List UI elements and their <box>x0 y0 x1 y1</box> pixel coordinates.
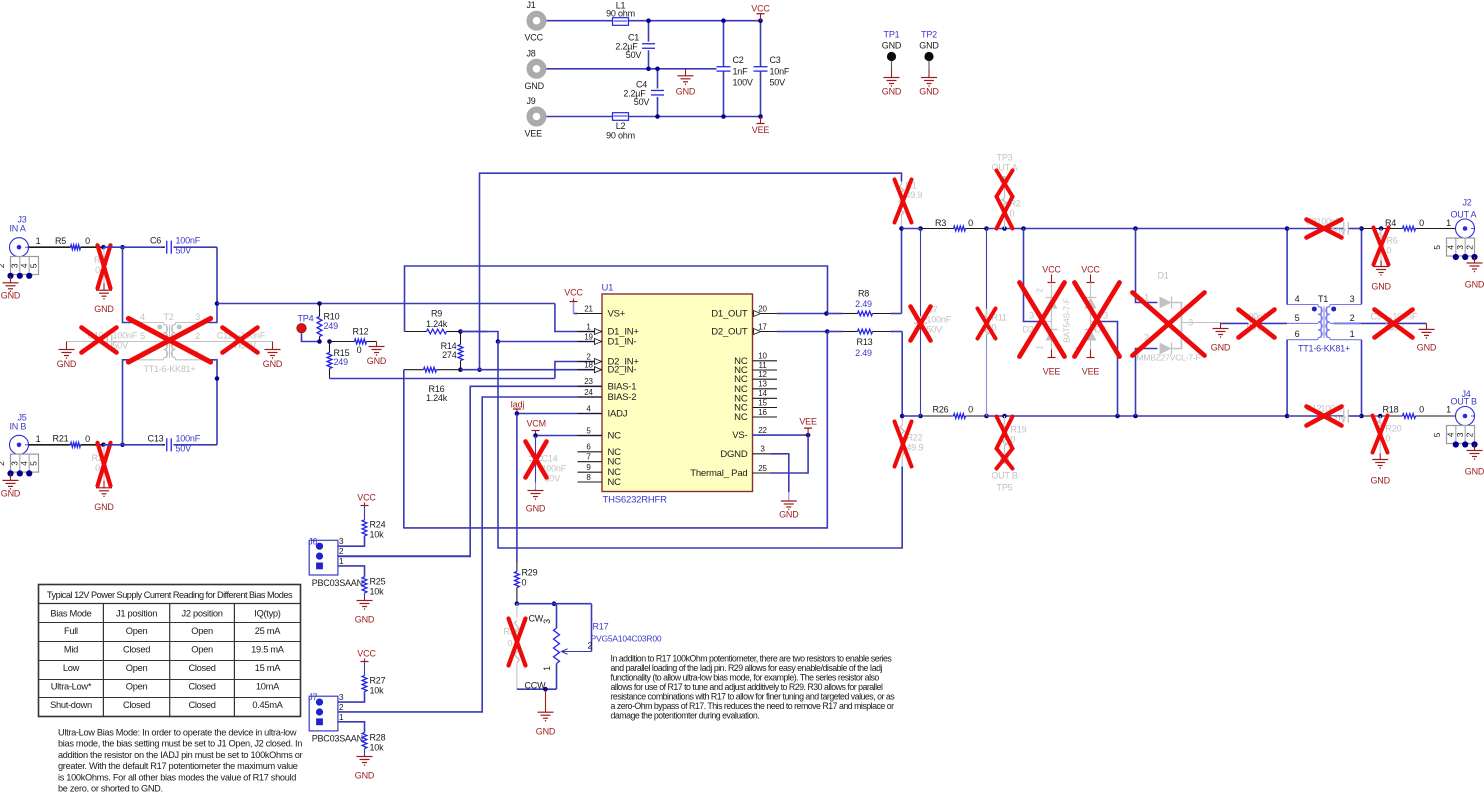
svg-text:50V: 50V <box>927 325 943 335</box>
svg-text:GND: GND <box>536 727 556 737</box>
svg-text:3: 3 <box>1188 318 1193 328</box>
svg-text:90 ohm: 90 ohm <box>606 131 635 141</box>
svg-text:IADJ: IADJ <box>608 409 628 420</box>
svg-text:4: 4 <box>140 312 145 322</box>
svg-text:GND: GND <box>57 359 77 369</box>
svg-text:2: 2 <box>0 263 6 268</box>
svg-text:15 mA: 15 mA <box>255 663 281 673</box>
svg-text:J2 position: J2 position <box>181 609 222 619</box>
svg-text:NC: NC <box>608 457 622 468</box>
svg-text:T1: T1 <box>1318 294 1328 304</box>
svg-text:GND: GND <box>1211 343 1231 353</box>
svg-text:0: 0 <box>1419 218 1424 228</box>
svg-text:R3: R3 <box>935 218 946 228</box>
svg-text:L2: L2 <box>616 121 626 131</box>
svg-text:be zero, or shorted to GND.: be zero, or shorted to GND. <box>58 784 163 793</box>
svg-text:BIAS-2: BIAS-2 <box>608 392 637 403</box>
svg-text:VS-: VS- <box>732 430 747 441</box>
svg-text:VEE: VEE <box>525 129 543 139</box>
svg-text:1: 1 <box>36 236 41 246</box>
svg-text:3: 3 <box>339 536 344 546</box>
svg-text:3: 3 <box>1029 311 1034 321</box>
svg-text:0: 0 <box>95 463 100 473</box>
svg-text:TT1-6-KK81+: TT1-6-KK81+ <box>1298 344 1350 354</box>
svg-text:249: 249 <box>334 357 349 367</box>
svg-text:10k: 10k <box>370 530 385 540</box>
svg-text:D1_IN-: D1_IN- <box>608 337 637 348</box>
svg-text:BIAS-1: BIAS-1 <box>608 381 637 392</box>
svg-text:GND: GND <box>355 771 375 781</box>
svg-text:50V: 50V <box>176 443 192 453</box>
svg-text:Bias Mode: Bias Mode <box>50 609 91 619</box>
svg-text:NC: NC <box>608 431 622 442</box>
svg-text:100V: 100V <box>733 77 753 87</box>
svg-text:0: 0 <box>85 434 90 444</box>
svg-text:100nF: 100nF <box>176 236 201 246</box>
svg-text:23: 23 <box>584 377 593 386</box>
svg-text:J1 position: J1 position <box>116 609 157 619</box>
svg-text:25 mA: 25 mA <box>255 626 281 636</box>
svg-text:R27: R27 <box>370 676 386 686</box>
svg-text:J1: J1 <box>527 0 536 10</box>
svg-text:10k: 10k <box>370 743 385 753</box>
svg-text:J8: J8 <box>527 48 536 58</box>
svg-text:17: 17 <box>758 322 767 331</box>
svg-text:3: 3 <box>1350 294 1355 304</box>
svg-text:D1: D1 <box>1158 271 1169 281</box>
svg-text:14: 14 <box>758 389 767 398</box>
svg-text:GND: GND <box>1370 476 1390 486</box>
svg-text:0: 0 <box>1419 405 1424 415</box>
svg-text:249: 249 <box>324 321 339 331</box>
svg-text:GND: GND <box>94 502 114 512</box>
svg-text:19.5 mA: 19.5 mA <box>251 645 285 655</box>
svg-text:VCC: VCC <box>357 493 376 503</box>
svg-text:and parallel loading of the Ia: and parallel loading of the Iadj pin. R2… <box>611 663 883 673</box>
svg-text:2: 2 <box>1464 432 1474 437</box>
svg-text:10k: 10k <box>370 686 385 696</box>
svg-text:D2_IN-: D2_IN- <box>608 365 637 376</box>
svg-text:R9: R9 <box>431 309 442 319</box>
svg-text:VCC: VCC <box>525 33 544 43</box>
svg-text:R4: R4 <box>1385 218 1396 228</box>
svg-text:VCM: VCM <box>527 419 546 429</box>
svg-text:damage the potentiomter during: damage the potentiomter during evaluatio… <box>611 711 760 721</box>
svg-text:allows for use of R17 to tune: allows for use of R17 to tune and adjust… <box>611 682 883 692</box>
svg-text:PVG5A104C03R00: PVG5A104C03R00 <box>591 634 662 644</box>
svg-text:Ultra-Low*: Ultra-Low* <box>51 682 92 692</box>
svg-text:is 100kOhms. For all other bia: is 100kOhms. For all other bias modes th… <box>58 772 296 782</box>
svg-text:R6: R6 <box>1387 236 1398 246</box>
svg-text:5: 5 <box>28 263 38 268</box>
svg-text:NC: NC <box>734 412 748 423</box>
svg-text:GND: GND <box>94 304 114 314</box>
svg-text:R24: R24 <box>370 520 386 530</box>
svg-text:GND: GND <box>263 359 283 369</box>
svg-text:100nF: 100nF <box>927 315 952 325</box>
svg-text:50V: 50V <box>176 246 192 256</box>
svg-text:1: 1 <box>1350 329 1355 339</box>
svg-text:5: 5 <box>1295 313 1300 323</box>
svg-text:R8: R8 <box>858 289 869 299</box>
svg-text:1: 1 <box>1446 218 1451 228</box>
svg-text:R12: R12 <box>353 327 369 337</box>
svg-text:GND: GND <box>1 488 21 498</box>
svg-text:R25: R25 <box>370 577 386 587</box>
svg-text:Thermal_ Pad: Thermal_ Pad <box>690 468 747 479</box>
svg-text:Low: Low <box>63 663 80 673</box>
svg-text:3: 3 <box>339 692 344 702</box>
svg-text:BAT54S-7-F: BAT54S-7-F <box>1062 298 1072 343</box>
svg-text:Open: Open <box>126 682 148 692</box>
svg-text:VCC: VCC <box>1081 265 1100 275</box>
svg-text:VEE: VEE <box>1043 367 1061 377</box>
svg-text:GND: GND <box>1465 467 1484 477</box>
svg-text:DGND: DGND <box>720 449 748 460</box>
svg-text:R28: R28 <box>370 733 386 743</box>
svg-text:GND: GND <box>355 615 375 625</box>
svg-text:1.24k: 1.24k <box>426 393 448 403</box>
svg-text:VEE: VEE <box>1082 367 1100 377</box>
svg-text:10mA: 10mA <box>256 682 280 692</box>
svg-text:R5: R5 <box>55 236 66 246</box>
svg-text:10k: 10k <box>370 587 385 597</box>
svg-text:10nF: 10nF <box>770 66 790 76</box>
svg-text:a zero-Ohm bypass of R17. Thi: a zero-Ohm bypass of R17. This reduces t… <box>611 701 895 711</box>
svg-text:GND: GND <box>882 41 902 51</box>
svg-text:GND: GND <box>1465 280 1484 290</box>
svg-text:GND: GND <box>882 87 902 97</box>
svg-text:Iadj: Iadj <box>511 400 525 410</box>
svg-text:5: 5 <box>1432 245 1442 250</box>
svg-text:R17: R17 <box>593 622 609 632</box>
svg-text:22: 22 <box>758 426 767 435</box>
svg-text:0: 0 <box>1010 209 1015 219</box>
svg-text:NC: NC <box>608 477 622 488</box>
svg-text:3: 3 <box>195 312 200 322</box>
svg-text:2: 2 <box>1464 245 1474 250</box>
svg-text:100nF: 100nF <box>113 331 138 341</box>
svg-text:J9: J9 <box>527 96 536 106</box>
svg-text:J2: J2 <box>1463 198 1472 208</box>
svg-text:TP5: TP5 <box>997 483 1013 493</box>
svg-text:J7: J7 <box>308 692 317 702</box>
svg-text:Closed: Closed <box>123 645 150 655</box>
svg-text:0.45mA: 0.45mA <box>252 700 283 710</box>
svg-text:49.9: 49.9 <box>907 443 924 453</box>
svg-text:1: 1 <box>542 666 552 671</box>
svg-text:2: 2 <box>195 331 200 341</box>
svg-text:19: 19 <box>584 332 593 341</box>
svg-text:GND: GND <box>919 41 939 51</box>
svg-text:50V: 50V <box>770 77 786 87</box>
svg-text:GND: GND <box>1 291 21 301</box>
svg-text:18: 18 <box>584 361 593 370</box>
svg-text:1: 1 <box>339 556 344 566</box>
svg-text:0: 0 <box>1386 434 1391 444</box>
svg-text:11: 11 <box>759 361 768 370</box>
svg-text:5: 5 <box>28 461 38 466</box>
svg-text:D2_OUT: D2_OUT <box>711 327 748 338</box>
svg-text:0: 0 <box>968 218 973 228</box>
svg-text:VS+: VS+ <box>608 309 626 320</box>
svg-text:VCC: VCC <box>751 4 770 14</box>
svg-text:VCC: VCC <box>357 649 376 659</box>
svg-text:R21: R21 <box>53 434 69 444</box>
svg-text:25: 25 <box>758 464 767 473</box>
svg-text:GND: GND <box>919 87 939 97</box>
svg-text:6: 6 <box>1295 329 1300 339</box>
svg-text:PBC03SAAN: PBC03SAAN <box>312 578 363 588</box>
svg-text:OUT B: OUT B <box>1451 397 1478 407</box>
svg-text:2: 2 <box>1350 313 1355 323</box>
svg-text:Typical 12V Power Supply Curre: Typical 12V Power Supply Current Reading… <box>47 590 293 600</box>
svg-text:PBC03SAAN: PBC03SAAN <box>312 734 363 744</box>
svg-text:TP2: TP2 <box>921 30 937 40</box>
svg-text:GND: GND <box>367 356 387 366</box>
svg-text:Open: Open <box>191 626 213 636</box>
svg-text:GND: GND <box>1371 282 1391 292</box>
svg-text:12: 12 <box>758 370 767 379</box>
svg-text:functionality (to allow ultra-: functionality (to allow ultra-low bias m… <box>611 673 880 683</box>
svg-text:VCC: VCC <box>1042 265 1061 275</box>
svg-text:VEE: VEE <box>799 417 817 427</box>
svg-text:IQ(typ): IQ(typ) <box>254 609 281 619</box>
svg-text:Open: Open <box>191 645 213 655</box>
svg-text:0: 0 <box>85 236 90 246</box>
svg-text:50V: 50V <box>626 50 642 60</box>
svg-text:GND: GND <box>1417 343 1437 353</box>
svg-text:2: 2 <box>339 702 344 712</box>
svg-text:21: 21 <box>584 304 593 313</box>
svg-text:addition the resistor on the I: addition the resistor on the IADJ pin mu… <box>58 750 303 760</box>
svg-text:10: 10 <box>758 352 767 361</box>
svg-text:resistance combinations with R: resistance combinations with R17 to allo… <box>611 692 896 702</box>
svg-text:OUT A: OUT A <box>1451 210 1477 220</box>
svg-text:TP1: TP1 <box>884 30 900 40</box>
svg-text:R20: R20 <box>1386 424 1402 434</box>
svg-text:50V: 50V <box>634 97 650 107</box>
svg-text:16: 16 <box>758 408 767 417</box>
svg-text:0: 0 <box>968 405 973 415</box>
svg-text:Ultra-Low Bias Mode: In order: Ultra-Low Bias Mode: In order to operate… <box>58 728 297 738</box>
svg-text:VCC: VCC <box>564 288 583 298</box>
svg-text:C2: C2 <box>733 55 744 65</box>
svg-text:C3: C3 <box>770 55 781 65</box>
svg-text:0: 0 <box>508 639 513 649</box>
svg-text:IN A: IN A <box>10 224 26 234</box>
svg-text:4: 4 <box>1295 294 1300 304</box>
svg-text:100nF: 100nF <box>176 433 201 443</box>
svg-text:1nF: 1nF <box>733 66 749 76</box>
svg-text:Closed: Closed <box>188 682 215 692</box>
svg-text:2.49: 2.49 <box>855 299 872 309</box>
svg-text:TT1-6-KK81+: TT1-6-KK81+ <box>143 364 195 374</box>
svg-text:24: 24 <box>584 388 593 397</box>
svg-text:90 ohm: 90 ohm <box>606 9 635 19</box>
svg-text:Shut-down: Shut-down <box>50 700 92 710</box>
svg-text:C14: C14 <box>542 454 558 464</box>
svg-text:C13: C13 <box>148 433 164 443</box>
svg-text:5: 5 <box>1432 432 1442 437</box>
svg-text:IN B: IN B <box>10 421 27 431</box>
svg-text:D1_OUT: D1_OUT <box>711 309 748 320</box>
svg-text:0: 0 <box>1387 246 1392 256</box>
svg-text:20: 20 <box>758 304 767 313</box>
svg-text:3: 3 <box>542 619 552 624</box>
svg-text:TP4: TP4 <box>298 314 314 324</box>
svg-text:VEE: VEE <box>752 125 770 135</box>
svg-text:R29: R29 <box>522 568 538 578</box>
svg-text:R26: R26 <box>933 405 949 415</box>
svg-text:Mid: Mid <box>64 645 78 655</box>
svg-text:R19: R19 <box>1011 425 1027 435</box>
svg-text:T2: T2 <box>163 312 173 322</box>
svg-text:R18: R18 <box>1383 405 1399 415</box>
svg-text:2: 2 <box>339 546 344 556</box>
svg-text:Closed: Closed <box>188 700 215 710</box>
svg-text:Open: Open <box>126 663 148 673</box>
svg-text:bias mode, the bias setting mu: bias mode, the bias setting must be set … <box>58 739 302 749</box>
svg-text:GND: GND <box>526 504 546 514</box>
svg-text:Closed: Closed <box>188 663 215 673</box>
svg-text:Closed: Closed <box>123 700 150 710</box>
svg-text:J6: J6 <box>308 536 317 546</box>
svg-text:OUT B: OUT B <box>991 471 1018 481</box>
svg-text:0: 0 <box>357 345 362 355</box>
svg-text:0: 0 <box>95 265 100 275</box>
svg-text:greater. With the default R17: greater. With the default R17 potentiome… <box>58 761 298 771</box>
svg-text:1: 1 <box>36 434 41 444</box>
svg-text:In addition to R17 100kOhm pot: In addition to R17 100kOhm potentiometer… <box>611 654 893 664</box>
svg-text:Open: Open <box>126 626 148 636</box>
svg-text:GND: GND <box>779 510 799 520</box>
svg-text:0: 0 <box>522 578 527 588</box>
svg-text:5: 5 <box>140 331 145 341</box>
svg-text:1.24k: 1.24k <box>426 319 448 329</box>
svg-text:GND: GND <box>525 81 545 91</box>
svg-text:THS6232RHFR: THS6232RHFR <box>603 495 668 506</box>
svg-text:2.49: 2.49 <box>855 348 872 358</box>
svg-text:MMBZ27VCL-7-F: MMBZ27VCL-7-F <box>1137 353 1201 363</box>
svg-text:U1: U1 <box>602 283 614 294</box>
svg-text:TP3: TP3 <box>997 153 1013 163</box>
svg-text:Full: Full <box>64 626 78 636</box>
svg-text:C6: C6 <box>150 236 161 246</box>
svg-text:274: 274 <box>442 350 457 360</box>
svg-text:1: 1 <box>339 712 344 722</box>
svg-text:15: 15 <box>758 398 767 407</box>
svg-text:GND: GND <box>676 87 696 97</box>
svg-text:13: 13 <box>758 380 767 389</box>
svg-text:R13: R13 <box>857 337 873 347</box>
svg-text:2: 2 <box>0 461 6 466</box>
